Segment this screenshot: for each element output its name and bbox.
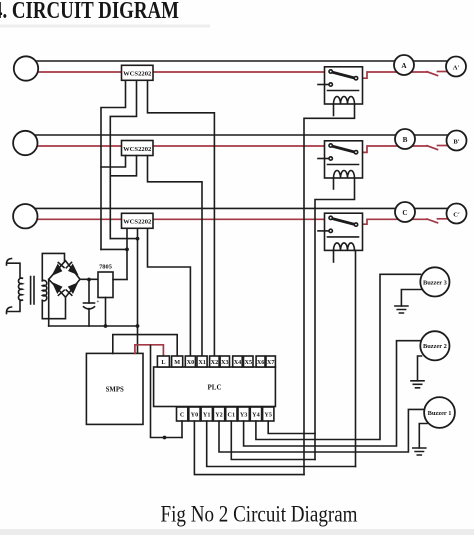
svg-text:Y1: Y1 <box>203 412 211 419</box>
svg-text:C1: C1 <box>228 412 236 419</box>
svg-text:A′: A′ <box>453 64 460 71</box>
svg-text:Buzzer 3: Buzzer 3 <box>423 279 447 286</box>
svg-text:X1: X1 <box>198 359 206 366</box>
svg-text:Y5: Y5 <box>264 412 272 419</box>
svg-text:Buzzer 2: Buzzer 2 <box>423 343 447 350</box>
svg-text:Y0: Y0 <box>191 412 199 419</box>
svg-text:M: M <box>174 359 180 366</box>
svg-text:X5: X5 <box>245 359 253 366</box>
svg-text:WCS2202: WCS2202 <box>123 219 152 226</box>
svg-text:C: C <box>180 412 184 419</box>
svg-text:X7: X7 <box>267 359 275 366</box>
svg-text:C′: C′ <box>453 211 460 218</box>
svg-text:WCS2202: WCS2202 <box>123 146 152 153</box>
svg-text:WCS2202: WCS2202 <box>123 71 152 78</box>
svg-text:PLC: PLC <box>208 384 222 392</box>
svg-text:X4: X4 <box>234 359 242 366</box>
svg-text:SMPS: SMPS <box>106 387 124 394</box>
svg-text:Fig No 2 Circuit Diagram: Fig No 2 Circuit Diagram <box>161 502 358 527</box>
svg-text:Y3: Y3 <box>240 412 248 419</box>
svg-text:X3: X3 <box>221 359 229 366</box>
svg-text:X0: X0 <box>187 359 195 366</box>
svg-text:B: B <box>403 136 408 144</box>
svg-text:4. CIRCUIT DIGRAM: 4. CIRCUIT DIGRAM <box>0 0 179 24</box>
svg-text:C: C <box>402 209 407 217</box>
svg-text:Buzzer 1: Buzzer 1 <box>428 410 452 417</box>
svg-text:B′: B′ <box>453 138 459 145</box>
svg-text:X6: X6 <box>257 359 265 366</box>
svg-text:A: A <box>401 62 407 70</box>
svg-text:+: + <box>97 300 100 305</box>
svg-text:X2: X2 <box>211 359 219 366</box>
svg-text:7805: 7805 <box>99 264 112 271</box>
svg-text:Y4: Y4 <box>252 412 260 419</box>
svg-text:Y2: Y2 <box>215 412 223 419</box>
svg-text:L: L <box>161 359 165 366</box>
